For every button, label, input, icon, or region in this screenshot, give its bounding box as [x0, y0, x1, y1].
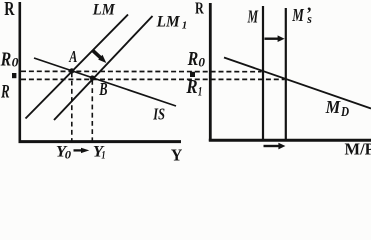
svg-text:LM: LM [156, 13, 181, 30]
left panel vertical axis (R) [18, 2, 21, 143]
shifted money supply line M's [285, 8, 287, 139]
dashed vertical line at Y1 below point B [91, 80, 93, 141]
LM1 curve [54, 16, 153, 120]
money demand curve MD [224, 58, 371, 109]
dashed horizontal line at R0 level [21, 70, 262, 72]
svg-text:1: 1 [198, 83, 202, 98]
svg-text:R: R [187, 49, 198, 70]
point A dot [69, 68, 74, 73]
arrow from Y0 to Y1 [74, 148, 90, 153]
dashed horizontal line at R1 level [21, 78, 285, 80]
LM1 label [156, 13, 188, 31]
svg-text:1: 1 [101, 149, 105, 161]
svg-text:0: 0 [65, 149, 72, 161]
svg-text:R: R [0, 82, 9, 103]
svg-text:LM: LM [92, 1, 116, 18]
svg-text:M: M [247, 6, 259, 26]
right panel horizontal axis (M/P) [209, 139, 371, 142]
svg-text:1: 1 [182, 19, 188, 31]
point B dot [90, 75, 95, 80]
svg-text:A: A [69, 47, 78, 66]
arrow from M to M's (top) [265, 35, 285, 42]
svg-text:s: s [306, 12, 312, 26]
svg-text:0: 0 [198, 55, 205, 70]
svg-text:R: R [195, 0, 204, 18]
svg-text:IS: IS [153, 104, 165, 123]
right panel vertical axis (R) [209, 3, 212, 141]
Y1 label (left x-axis) [93, 144, 106, 162]
left panel horizontal axis (Y) [19, 140, 182, 143]
money supply label M's [291, 3, 311, 26]
svg-text:Y: Y [171, 145, 183, 161]
money supply line M [262, 6, 264, 139]
IS curve [34, 58, 176, 106]
dashed vertical line at Y0 below point A [71, 73, 73, 141]
R1 label (right axis) [186, 77, 203, 98]
svg-text:0: 0 [12, 55, 19, 70]
svg-text:B: B [99, 79, 108, 99]
small square tick between panels [190, 72, 195, 77]
svg-text:M/P: M/P [345, 139, 371, 158]
LM curve [26, 15, 129, 119]
shift arrow from LM to LM1 [92, 50, 106, 63]
small square tick on left axis [12, 73, 16, 78]
arrow below right x-axis [264, 143, 286, 150]
svg-text:R: R [186, 77, 198, 98]
R0 label (right axis) [187, 49, 206, 70]
Y0 label (left x-axis) [56, 144, 71, 162]
svg-text:M: M [325, 97, 341, 117]
R0 label (left axis) [0, 49, 19, 70]
svg-text:M: M [291, 5, 304, 25]
MD label [325, 97, 350, 119]
svg-text:R: R [4, 0, 15, 20]
svg-text:R: R [0, 49, 11, 70]
svg-text:D: D [340, 104, 349, 119]
